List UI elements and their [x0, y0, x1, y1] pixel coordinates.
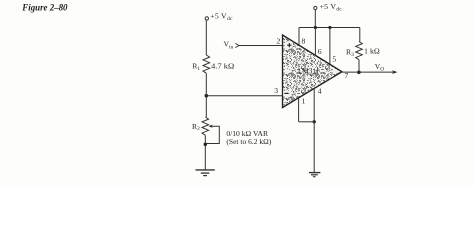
svg-text:2: 2: [277, 36, 281, 45]
svg-text:8: 8: [302, 36, 306, 45]
svg-text:4: 4: [318, 86, 322, 95]
svg-text:1: 1: [302, 97, 306, 106]
svg-text:7: 7: [345, 71, 349, 80]
svg-text:3: 3: [274, 86, 278, 95]
svg-text:Figure 2–80: Figure 2–80: [21, 2, 67, 13]
svg-text:5: 5: [332, 55, 336, 64]
svg-text:6: 6: [318, 47, 322, 56]
svg-text:(Set to 6.2 kΩ): (Set to 6.2 kΩ): [226, 137, 271, 146]
svg-text:4.7 kΩ: 4.7 kΩ: [211, 61, 234, 70]
svg-text:1 kΩ: 1 kΩ: [364, 47, 380, 56]
svg-text:LM311: LM311: [298, 67, 319, 76]
